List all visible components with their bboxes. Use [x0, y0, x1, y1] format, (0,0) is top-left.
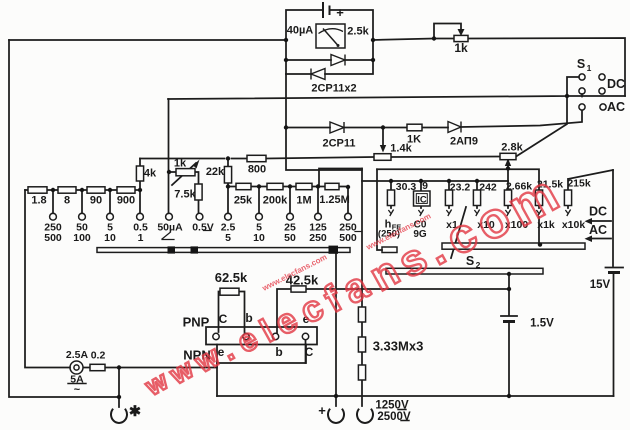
svg-text:500: 500 [44, 232, 62, 244]
svg-text:15V: 15V [590, 279, 611, 291]
svg-text:2CP11: 2CP11 [322, 138, 355, 150]
svg-text:1.8: 1.8 [31, 195, 46, 207]
svg-text:2АП9: 2АП9 [450, 136, 478, 148]
svg-text:10: 10 [104, 232, 116, 244]
svg-text:1250V: 1250V [375, 400, 409, 412]
svg-text:500: 500 [339, 232, 357, 244]
svg-text:PNP: PNP [183, 315, 210, 330]
svg-text:2500V: 2500V [377, 411, 411, 423]
svg-text:DC: DC [589, 205, 607, 219]
svg-text:30.3: 30.3 [396, 181, 417, 193]
svg-text:800: 800 [248, 164, 266, 176]
svg-text:100: 100 [73, 232, 91, 244]
svg-text:90: 90 [90, 195, 102, 207]
svg-text:1k: 1k [454, 41, 468, 55]
svg-text:200k: 200k [263, 195, 288, 207]
svg-text:9: 9 [422, 180, 428, 192]
svg-text:2: 2 [476, 260, 481, 270]
svg-text:+: + [336, 5, 344, 20]
svg-text:215k: 215k [567, 178, 591, 190]
svg-text:900: 900 [117, 195, 135, 207]
svg-text:AC: AC [607, 100, 625, 114]
svg-text:2.5k: 2.5k [347, 26, 369, 38]
svg-text:1: 1 [587, 63, 592, 73]
svg-text:DC: DC [607, 77, 625, 91]
svg-text:3.33Mx3: 3.33Mx3 [373, 339, 424, 354]
svg-text:4k: 4k [144, 168, 157, 180]
svg-text:50µA: 50µA [157, 222, 183, 234]
svg-text:10: 10 [253, 232, 265, 244]
svg-text:2.8k: 2.8k [501, 142, 523, 154]
svg-text:1: 1 [138, 232, 144, 244]
svg-text:AC: AC [589, 223, 607, 237]
svg-text:2CP11x2: 2CP11x2 [311, 83, 356, 95]
svg-text:25k: 25k [234, 195, 253, 207]
svg-text:IC: IC [417, 195, 427, 206]
svg-text:1.25M: 1.25M [319, 194, 350, 206]
svg-text:S: S [577, 57, 585, 71]
svg-text:✱: ✱ [129, 404, 142, 420]
svg-text:~: ~ [74, 384, 81, 396]
svg-text:2.5A: 2.5A [66, 349, 89, 361]
svg-text:1M: 1M [296, 195, 311, 207]
svg-text:7.5k: 7.5k [174, 189, 196, 201]
svg-text:23.2: 23.2 [450, 182, 471, 194]
svg-text:b: b [275, 345, 282, 359]
svg-text:x10k: x10k [562, 219, 586, 231]
svg-text:250: 250 [309, 232, 327, 244]
svg-text:22k: 22k [206, 166, 225, 178]
svg-text:0.5V: 0.5V [192, 222, 214, 234]
svg-text:C: C [219, 312, 228, 326]
svg-text:62.5k: 62.5k [215, 270, 248, 285]
svg-text:5: 5 [225, 232, 231, 244]
svg-text:+: + [318, 403, 326, 418]
svg-text:1.4k: 1.4k [390, 143, 412, 155]
svg-text:50: 50 [284, 232, 296, 244]
svg-text:0.2: 0.2 [91, 350, 106, 362]
svg-text:1.5V: 1.5V [530, 318, 554, 330]
svg-text:C: C [305, 345, 314, 359]
svg-text:1k: 1k [174, 158, 187, 170]
svg-text:8: 8 [64, 195, 70, 207]
svg-text:40µA: 40µA [287, 25, 314, 37]
